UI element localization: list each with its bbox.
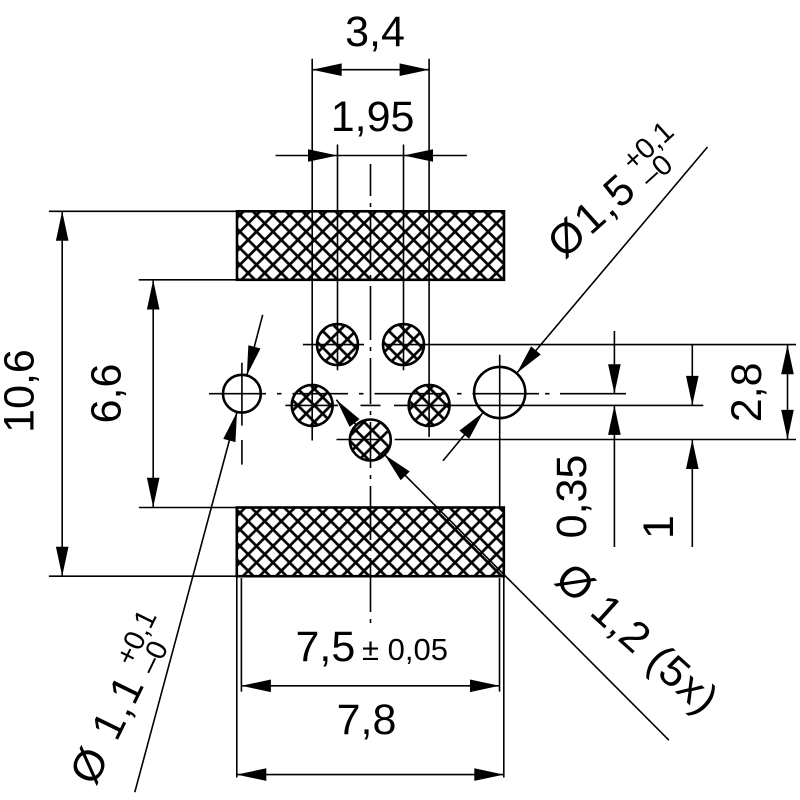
svg-text:3,4: 3,4 [345,8,405,56]
dimension 0,35 [548,331,621,547]
dimension 1 [635,345,699,547]
body top edge line (right tab top) [303,344,796,346]
svg-text:7,5: 7,5 [296,623,356,671]
leader diam 1,5 [443,115,708,460]
svg-text:0,35: 0,35 [548,455,596,539]
dimension 6,6 [83,280,238,508]
svg-text:7,8: 7,8 [337,696,397,744]
svg-text:6,6: 6,6 [83,364,131,424]
hole C3 (hatched, diam 1,2) [383,324,424,365]
main horizontal centerline [209,393,626,395]
dimension 3,4 [312,8,429,76]
big hole (plain, diam 1,5) [474,367,525,418]
leader diam 1,1 [55,315,262,792]
hole C5 (hatched, diam 1,2) [409,385,450,426]
extension line x=312 (3,4 left) merged with hole C4 vertical centerline [311,59,313,441]
leader diam 1,2 (5x) [331,396,727,740]
body bottom edge line (right tab bottom) [337,439,797,441]
hole C6 (hatched, diam 1,2) [350,420,391,461]
mid hole-row axis line [285,404,703,406]
hole C4 (hatched, diam 1,2) [292,385,333,426]
extension line x=429 (3,4 right) merged with hole C5 vertical centerline [428,59,430,437]
top solder pad (hatched bar) [237,211,504,279]
svg-text:10,6: 10,6 [0,349,44,433]
hole C1 (plain, diam 1,1) [223,375,261,413]
big hole vertical centerline [499,355,501,507]
dimension 1,95 [276,93,467,162]
dimension 7,8 [237,576,504,781]
extension line x=337.5 (1,95 left) merged with hole C2 vertical centerline [337,145,339,371]
svg-text:2,8: 2,8 [723,363,771,423]
dimension 7,5 ± 0,05 [241,578,499,692]
extension line x=403.5 (1,95 right) merged with hole C3 vertical centerline [403,145,405,371]
svg-text:± 0,05: ± 0,05 [362,632,448,667]
dimension 2,8 [723,345,794,440]
dimension 10,6 [0,211,237,576]
svg-text:1,95: 1,95 [331,93,415,141]
svg-text:1: 1 [635,515,683,539]
main vertical centerline [370,164,372,623]
hole C2 (hatched, diam 1,2) [317,324,358,365]
bottom solder pad (hatched bar) [237,508,504,577]
hole C1 vertical centerline [241,363,243,465]
